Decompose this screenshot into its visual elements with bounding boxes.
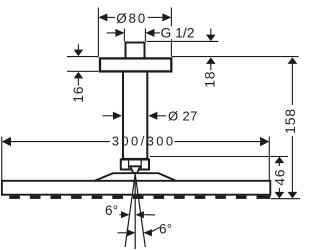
- nut: [121, 160, 149, 170]
- svg-text:46: 46: [272, 169, 288, 186]
- svg-text:6°: 6°: [105, 203, 118, 218]
- svg-text:300/300: 300/300: [112, 133, 176, 148]
- svg-text:Ø80: Ø80: [116, 11, 147, 26]
- 300/300 extension line right: [268, 137, 270, 181]
- spray centre line: [134, 174, 136, 249]
- label G1/2: [160, 26, 197, 39]
- G1/2 connector nub: [126, 43, 145, 58]
- svg-text:Ø 27: Ø 27: [168, 109, 198, 124]
- nozzle dashes: [9, 196, 270, 199]
- upper 6° callout arrows: [120, 211, 156, 218]
- svg-text:16: 16: [70, 86, 86, 103]
- nut facet line left: [128, 160, 130, 170]
- G1/2 extension line right: [144, 29, 146, 42]
- svg-text:6°: 6°: [159, 221, 172, 236]
- label 300/300 (white box masks pipe lines): [111, 135, 175, 148]
- dimension 16: [74, 44, 84, 85]
- pipe right wall: [146, 71, 148, 159]
- pipe left wall: [122, 71, 124, 159]
- cone inside nut: [130, 166, 140, 173]
- dimension Ø80: [98, 13, 171, 21]
- dimension G1/2: [107, 29, 160, 37]
- dimension 46: [275, 157, 285, 199]
- pipe bottom cap: [122, 158, 149, 161]
- Ø80 extension line left: [97, 8, 99, 57]
- dimension Ø27: [103, 112, 167, 120]
- plate bottom extension line left: [67, 70, 99, 72]
- ceiling line left segment: [67, 56, 99, 58]
- svg-text:158: 158: [282, 108, 298, 134]
- hump (raised centre): [95, 173, 176, 180]
- ceiling line right segment: [172, 56, 299, 58]
- dimension 158: [288, 57, 298, 198]
- dimension 300/300: [2, 137, 270, 146]
- head bottom extension line: [271, 198, 300, 200]
- spray right 6° line: [135, 174, 145, 247]
- spray left 6° line: [125, 174, 135, 247]
- spray head slab: [2, 173, 270, 195]
- nut top extension line: [150, 156, 288, 158]
- 300/300 extension line left: [1, 137, 3, 181]
- nub top extension line: [147, 40, 219, 42]
- nut facet line right: [140, 160, 142, 170]
- G1/2 extension line left: [123, 29, 125, 42]
- lower 6° callout arrows: [118, 227, 160, 236]
- svg-text:G 1/2: G 1/2: [161, 25, 195, 41]
- svg-text:18: 18: [202, 71, 218, 88]
- Ø80 extension line right: [170, 8, 172, 57]
- ceiling plate (escutcheon) Ø80: [100, 43, 171, 170]
- dimension 18: [206, 29, 216, 71]
